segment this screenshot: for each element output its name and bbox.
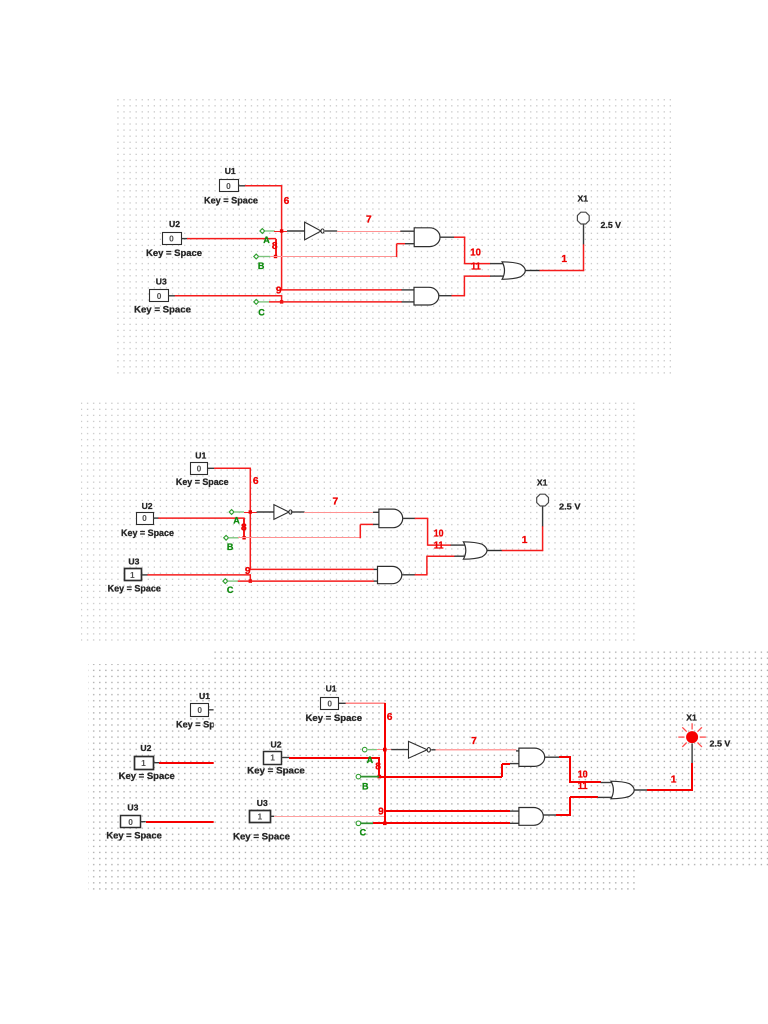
- wire AND1 upper input stub: [373, 511, 379, 513]
- svg-text:2.5 V: 2.5 V: [710, 738, 731, 748]
- label Key = Space (U3): [134, 304, 191, 314]
- svg-text:Key = Space: Key = Space: [108, 583, 161, 593]
- NOT gate (inverter): [274, 505, 292, 520]
- wire AND1 output stub: [545, 756, 560, 758]
- junction: [242, 536, 245, 539]
- on-page connector C: [223, 579, 228, 584]
- wire net 9 row: [384, 810, 510, 812]
- svg-text:1: 1: [671, 774, 677, 785]
- net label 11: [434, 540, 444, 551]
- net label 11: [471, 262, 481, 273]
- svg-text:C: C: [227, 585, 234, 595]
- svg-text:1: 1: [561, 254, 567, 265]
- svg-text:1: 1: [141, 758, 146, 768]
- wire net 6 horizontal: [214, 467, 251, 469]
- svg-text:Key = Space: Key = Space: [106, 830, 161, 840]
- on-page connector A: [362, 747, 367, 752]
- label A: [367, 755, 374, 765]
- svg-text:B: B: [362, 781, 369, 791]
- wire NOT output stub: [325, 230, 337, 232]
- svg-text:6: 6: [253, 476, 259, 487]
- wire OR output stub: [634, 789, 647, 791]
- wire net 11 (AND2 to OR): [556, 814, 571, 816]
- junction: [378, 775, 382, 779]
- svg-text:U3: U3: [156, 277, 167, 287]
- net label 9: [276, 285, 282, 296]
- wire AND1 lower input stub: [405, 243, 414, 245]
- label Key = Space (U2): [146, 248, 202, 258]
- AND gate 1: [379, 509, 403, 528]
- wire connector A to junction: [244, 512, 257, 514]
- svg-text:10: 10: [578, 769, 588, 780]
- label C: [360, 828, 367, 838]
- wire net 10 (AND1 to OR): [454, 236, 465, 238]
- wire NOT gate input: [257, 511, 275, 513]
- net label 8: [375, 762, 381, 773]
- wire net 10 (AND1 to OR): [415, 517, 429, 519]
- label 2.5 V: [710, 738, 731, 748]
- junction: [383, 822, 387, 826]
- switch U3 box: [125, 569, 142, 581]
- wire net 1: [502, 550, 544, 552]
- net label 7: [333, 496, 339, 507]
- wire net 6 vertical: [281, 185, 283, 290]
- svg-text:Key = Space: Key = Space: [134, 304, 191, 314]
- svg-text:X1: X1: [686, 713, 697, 723]
- wire B row jog up to AND1: [396, 244, 398, 257]
- wire U3 pin stub: [270, 815, 274, 817]
- on-page connector B: [254, 254, 259, 259]
- wire U3 to node C: [147, 574, 251, 576]
- svg-text:A: A: [263, 235, 270, 245]
- label U3: [257, 798, 268, 808]
- wire B row jog up to AND1: [359, 524, 361, 538]
- OR gate: [502, 262, 525, 280]
- svg-text:1: 1: [130, 570, 135, 580]
- label A: [263, 235, 270, 245]
- svg-text:1: 1: [270, 753, 275, 763]
- svg-text:Key = Space: Key = Space: [247, 766, 305, 776]
- label 2.5 V: [601, 220, 622, 230]
- label X1: [578, 193, 589, 203]
- panel 3 right grid background: [214, 650, 768, 867]
- wire net 8 vertical: [243, 518, 245, 538]
- label C: [227, 585, 234, 595]
- AND gate 2: [378, 566, 402, 583]
- svg-text:7: 7: [333, 496, 339, 507]
- wire AND2 upper input stub: [402, 289, 415, 291]
- net label 7: [471, 736, 477, 747]
- wire net 1: [540, 270, 585, 272]
- svg-text:0: 0: [169, 234, 174, 244]
- wire net 6 horizontal: [245, 185, 282, 187]
- wire connector C stub (green): [259, 301, 270, 303]
- label Key = Space (U2): [119, 771, 175, 781]
- label U2: [271, 739, 282, 749]
- wire node C row: [373, 822, 510, 824]
- label A: [233, 516, 240, 526]
- panel 2 grid background: [81, 401, 635, 645]
- svg-text:2.5 V: 2.5 V: [559, 501, 581, 511]
- junction: [280, 229, 283, 232]
- panel 1 grid background: [113, 96, 671, 375]
- wire net 6 vertical: [249, 468, 251, 570]
- svg-text:X1: X1: [537, 478, 548, 488]
- svg-text:U1: U1: [199, 691, 210, 701]
- svg-text:X1: X1: [578, 193, 589, 203]
- label U1: [225, 166, 236, 176]
- wire connector B stub (green): [361, 776, 379, 778]
- wire AND1 lower input stub: [373, 523, 379, 525]
- on-page connector B: [224, 535, 229, 540]
- AND gate 2: [519, 808, 543, 826]
- wire NOT output stub: [291, 511, 305, 513]
- wire connector A stub (green): [367, 749, 377, 751]
- on-page connector A: [260, 229, 265, 234]
- wire AND1 output stub: [403, 517, 416, 519]
- wire U1 pin stub (left stack): [209, 709, 214, 711]
- wire connector C stub (green): [228, 580, 239, 582]
- wire OR upper input stub: [451, 544, 466, 546]
- label U2: [142, 501, 153, 511]
- panel 3 left grid background: [88, 664, 637, 890]
- label U3: [127, 803, 138, 813]
- net label 11: [578, 781, 588, 792]
- NOT gate (inverter): [409, 741, 431, 758]
- AND gate 1: [414, 228, 440, 247]
- label 2.5 V: [559, 501, 581, 511]
- svg-text:9: 9: [276, 285, 282, 296]
- wire net 7: [304, 512, 373, 514]
- wire net 8 vertical: [378, 758, 380, 777]
- net label 9: [378, 807, 384, 818]
- svg-text:11: 11: [434, 540, 444, 551]
- OR gate: [463, 542, 487, 559]
- wire U3 pin stub: [168, 295, 175, 297]
- wire OR lower input stub: [490, 275, 505, 277]
- wire OR upper input stub: [601, 782, 613, 784]
- label U2: [169, 219, 180, 229]
- wire U1 pin stub: [238, 185, 246, 187]
- switch U1 box: [220, 180, 239, 192]
- wire NOT output stub: [431, 749, 436, 751]
- svg-text:U1: U1: [326, 684, 337, 694]
- wire net 10 (AND1 to OR): [559, 756, 571, 758]
- AND gate 2: [414, 287, 439, 305]
- svg-text:8: 8: [375, 762, 381, 773]
- label Key = Space (U2): [247, 766, 305, 776]
- NOT gate (inverter): [305, 222, 324, 240]
- svg-text:8: 8: [272, 241, 278, 252]
- svg-text:U2: U2: [142, 501, 153, 511]
- wire net 8 vertical: [275, 239, 277, 257]
- label C: [258, 307, 265, 317]
- wire net 1: [647, 789, 693, 791]
- svg-text:1: 1: [257, 811, 262, 821]
- label X1: [537, 478, 548, 488]
- svg-text:0: 0: [226, 181, 231, 191]
- switch U3 box: [150, 290, 169, 302]
- svg-text:Key = Space: Key = Space: [119, 771, 175, 781]
- wire AND2 output stub: [439, 295, 452, 297]
- net label 7: [366, 215, 372, 226]
- label Key = Space (U3): [233, 832, 290, 842]
- svg-text:1: 1: [522, 535, 528, 546]
- net label 1: [561, 254, 567, 265]
- switch U1 box: [191, 463, 208, 475]
- svg-text:7: 7: [366, 215, 372, 226]
- wire connector A stub (green): [234, 511, 244, 513]
- svg-text:10: 10: [470, 248, 481, 259]
- wire node C row: [238, 580, 374, 582]
- svg-text:6: 6: [387, 712, 393, 723]
- svg-text:Key = Space: Key = Space: [176, 477, 229, 487]
- svg-text:0: 0: [142, 513, 147, 523]
- net label 10: [578, 769, 588, 780]
- wire AND2 upper input stub: [510, 810, 519, 812]
- junction: [274, 255, 277, 258]
- wire net 9 row: [250, 568, 374, 570]
- wire U3 to node C: [175, 295, 282, 297]
- wire node B row: [238, 537, 361, 539]
- svg-text:0: 0: [197, 705, 202, 715]
- wire NOT gate input: [391, 749, 409, 751]
- net label 1: [522, 535, 528, 546]
- svg-text:9: 9: [378, 807, 384, 818]
- wire U2 to net 8: [153, 517, 159, 519]
- wire AND2 upper input stub: [374, 568, 378, 570]
- wire OR lower input stub: [454, 555, 466, 557]
- probe X1 lamp (unlit): [537, 494, 549, 506]
- switch U2 box: [264, 752, 282, 765]
- wire node B row: [270, 256, 397, 258]
- label B: [362, 781, 369, 791]
- wire U3 to node C: [274, 816, 385, 818]
- label U1: [195, 450, 206, 460]
- svg-text:0: 0: [197, 463, 202, 473]
- net label 8: [241, 523, 247, 534]
- net label 10: [434, 529, 444, 540]
- wire net 6 vertical: [384, 703, 386, 812]
- wire AND2 lower input stub: [510, 822, 519, 824]
- svg-text:C: C: [258, 307, 265, 317]
- svg-text:Key = Space: Key = Space: [204, 195, 258, 205]
- svg-text:8: 8: [241, 523, 247, 534]
- svg-text:Key = Space: Key = Space: [233, 832, 290, 842]
- label U3: [156, 277, 167, 287]
- wire net 7: [337, 231, 401, 233]
- wire net 11 (AND2 to OR): [415, 574, 428, 576]
- net label 10: [470, 248, 481, 259]
- wire AND1 lower input stub: [510, 763, 519, 765]
- label Key = Space (U3): [108, 583, 161, 593]
- svg-text:0: 0: [327, 698, 332, 708]
- wire connector A stub (green): [265, 230, 275, 232]
- svg-text:B: B: [227, 542, 234, 552]
- wire AND2 lower input stub: [402, 301, 414, 303]
- wire B row jog up to AND1: [501, 764, 503, 777]
- wire U1 pin stub: [339, 702, 346, 704]
- wire connector A to junction: [274, 231, 287, 233]
- wire OR upper input stub: [490, 263, 505, 265]
- net label 6: [284, 196, 290, 207]
- label U1: [326, 684, 337, 694]
- wire OR lower input stub: [598, 796, 613, 798]
- junction: [249, 579, 252, 582]
- wire OR output stub: [487, 550, 502, 552]
- wire AND2 output stub: [543, 814, 556, 816]
- label Key = Space (U2): [121, 528, 174, 538]
- wire connector B stub (green): [259, 256, 271, 258]
- svg-text:6: 6: [284, 196, 290, 207]
- wire U2 to net 8: [281, 757, 289, 759]
- on-page connector B: [356, 774, 361, 779]
- wire probe stem: [691, 743, 693, 763]
- label U3: [128, 556, 139, 566]
- svg-text:Key = Space: Key = Space: [121, 528, 174, 538]
- label U1: [199, 691, 210, 701]
- svg-text:U2: U2: [140, 743, 151, 753]
- wire AND1 output stub: [440, 236, 454, 238]
- label X1: [686, 713, 697, 723]
- OR gate: [611, 781, 634, 799]
- switch U2 box: [163, 233, 182, 245]
- svg-text:B: B: [258, 261, 265, 271]
- svg-text:U3: U3: [257, 798, 268, 808]
- wire AND2 output stub: [402, 574, 415, 576]
- wire net 9 row: [281, 289, 402, 291]
- wire U2 (left stack): [153, 762, 160, 764]
- AND gate 1: [519, 748, 545, 766]
- svg-text:11: 11: [471, 262, 481, 273]
- wire connector A to junction: [377, 749, 392, 751]
- wire net 7: [436, 749, 517, 751]
- wire node C row: [269, 301, 402, 303]
- net label 6: [387, 712, 393, 723]
- label Key = Space (U1): [176, 720, 230, 730]
- net label 9: [245, 566, 251, 577]
- net label 6: [253, 476, 259, 487]
- on-page connector C: [356, 821, 361, 826]
- label B: [227, 542, 234, 552]
- junction: [383, 748, 387, 752]
- svg-text:U1: U1: [195, 450, 206, 460]
- svg-text:9: 9: [245, 566, 251, 577]
- svg-text:U2: U2: [271, 739, 282, 749]
- switch U2 box: [137, 513, 154, 525]
- svg-text:U3: U3: [128, 556, 139, 566]
- label Key = Space (U3): [106, 830, 161, 840]
- net label 1: [671, 774, 677, 785]
- wire AND1 upper input stub: [400, 230, 414, 232]
- wire OR output stub: [525, 270, 540, 272]
- probe X1 lamp (lit): [678, 723, 706, 747]
- wire probe stem: [583, 223, 585, 244]
- svg-text:A: A: [367, 755, 374, 765]
- svg-text:U3: U3: [127, 803, 138, 813]
- wire net 11 (AND2 to OR): [452, 295, 466, 297]
- label Key = Space (U1): [204, 195, 258, 205]
- svg-text:A: A: [233, 516, 240, 526]
- wire U1 pin stub: [208, 467, 215, 469]
- probe X1 lamp (unlit): [577, 212, 589, 224]
- label B: [258, 261, 265, 271]
- wire AND2 lower input stub: [374, 580, 378, 582]
- on-page connector A: [229, 510, 234, 515]
- label Key = Space (U1): [306, 713, 363, 723]
- wire U2 to net 8: [181, 238, 188, 240]
- switch U2 box: [135, 757, 154, 770]
- switch U3 box: [121, 816, 141, 828]
- svg-text:U2: U2: [169, 219, 180, 229]
- svg-text:Key = Space: Key = Space: [306, 713, 363, 723]
- wire probe stem: [542, 505, 544, 526]
- wire node B row: [379, 776, 502, 778]
- wire U3 (left stack): [140, 821, 146, 823]
- wire NOT gate input: [287, 230, 305, 232]
- switch U3 box: [250, 811, 271, 823]
- svg-text:0: 0: [157, 291, 162, 301]
- on-page connector C: [254, 300, 259, 305]
- svg-text:Key = Space: Key = Space: [146, 248, 202, 258]
- svg-text:11: 11: [578, 781, 588, 792]
- switch U1 box: [191, 704, 209, 717]
- svg-text:10: 10: [434, 529, 444, 540]
- wire U3 pin stub: [141, 574, 148, 576]
- wire connector C stub (green): [361, 822, 373, 824]
- junction: [280, 300, 283, 303]
- wire AND1 upper input stub: [516, 750, 519, 752]
- net label 8: [272, 241, 278, 252]
- svg-text:U1: U1: [225, 166, 236, 176]
- svg-text:C: C: [360, 828, 367, 838]
- svg-text:2.5 V: 2.5 V: [601, 220, 622, 230]
- svg-text:7: 7: [471, 736, 477, 747]
- wire net 6 horizontal: [346, 702, 386, 704]
- switch U1 box: [321, 698, 339, 710]
- svg-text:0: 0: [128, 817, 133, 827]
- label Key = Space (U1): [176, 477, 229, 487]
- junction: [249, 510, 252, 513]
- wire connector B stub (green): [229, 537, 239, 539]
- label U2: [140, 743, 151, 753]
